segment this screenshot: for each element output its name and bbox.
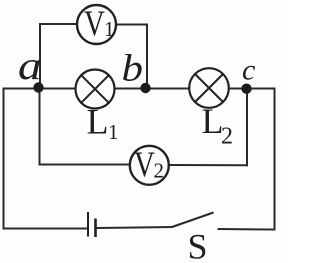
- wire right rail vertical: [274, 89, 276, 230]
- wire bottom middle (battery to switch): [97, 227, 173, 228]
- node c: [241, 84, 251, 94]
- svg-text:2: 2: [221, 124, 233, 150]
- label L1: [87, 102, 119, 145]
- svg-text:1: 1: [104, 17, 115, 41]
- svg-text:c: c: [242, 54, 255, 87]
- svg-text:a: a: [18, 43, 42, 88]
- switch S blade: [172, 213, 214, 228]
- lamp L1: [76, 70, 115, 109]
- svg-text:L: L: [87, 102, 109, 142]
- battery: short plate: [94, 219, 97, 238]
- wire V2 branch: up to node c: [246, 89, 248, 166]
- wire bottom left (rail to battery): [4, 228, 88, 230]
- wire switch right contact to right rail: [219, 228, 275, 231]
- battery: long plate: [87, 212, 89, 237]
- lamp L2: [189, 68, 229, 108]
- wire V1 branch: top left horizontal to voltmeter V1: [40, 23, 77, 25]
- wire V2 branch: node a down: [39, 88, 41, 165]
- label L2: [202, 101, 234, 150]
- wire V2 branch: voltmeter V2 right horizontal: [169, 164, 248, 166]
- wire V1 branch: down to node b: [146, 25, 148, 89]
- wire main horizontal middle segment (L1 to L2 through node b): [115, 88, 190, 90]
- wire main horizontal left segment (left rail to lamp L1): [4, 88, 76, 90]
- svg-text:b: b: [122, 48, 144, 90]
- wire V1 branch: node a up: [39, 24, 41, 88]
- svg-text:2: 2: [154, 159, 165, 183]
- svg-text:S: S: [188, 227, 208, 263]
- voltmeter V2: [130, 144, 169, 185]
- svg-text:V: V: [134, 144, 155, 184]
- svg-text:V: V: [84, 3, 105, 43]
- voltmeter V1: [77, 3, 116, 44]
- wire V2 branch: horizontal to voltmeter V2: [40, 164, 130, 166]
- wire left rail vertical: [3, 89, 5, 229]
- node b: [140, 83, 150, 93]
- wire main horizontal right segment (L2 through node c to right rail): [229, 88, 275, 90]
- wire V1 branch: voltmeter V1 to top right corner: [117, 24, 148, 26]
- node a: [33, 82, 43, 92]
- svg-text:1: 1: [108, 120, 119, 144]
